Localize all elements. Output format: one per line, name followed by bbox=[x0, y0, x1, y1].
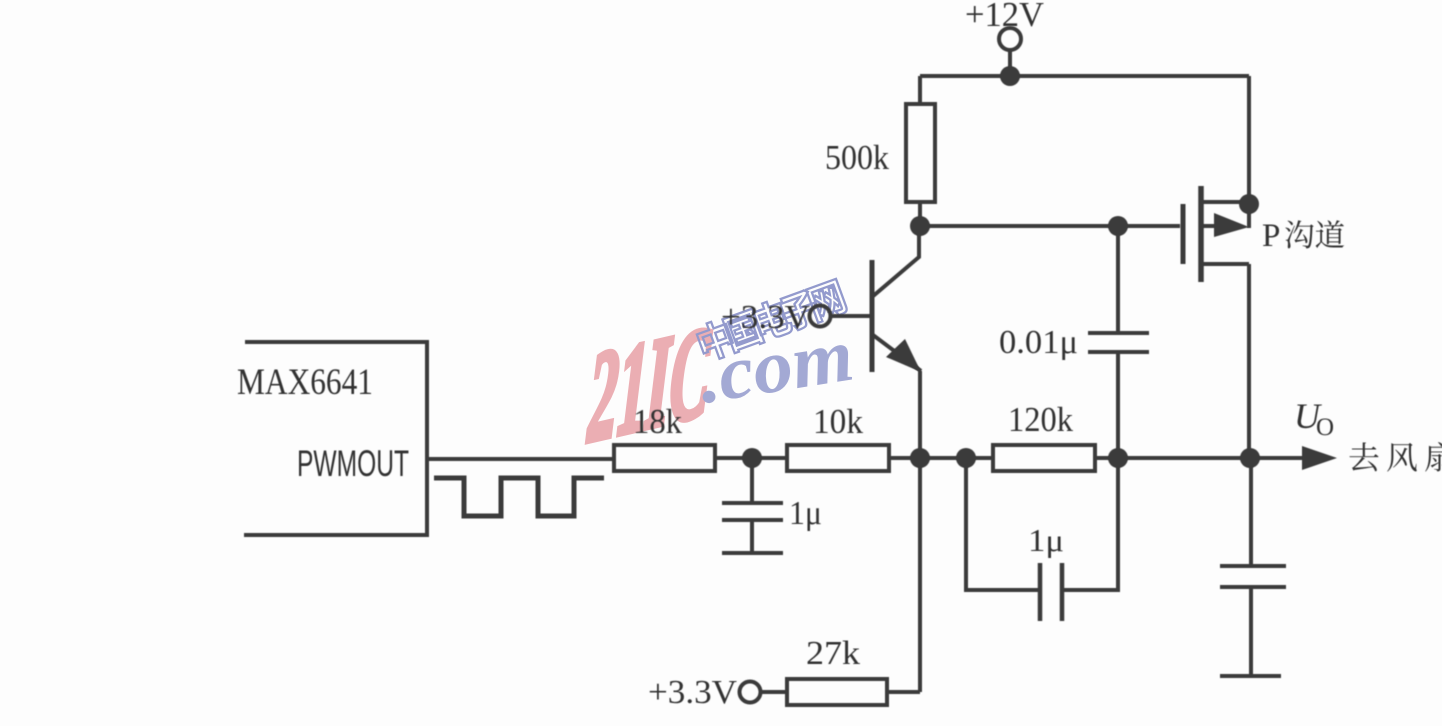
svg-text:120k: 120k bbox=[1008, 400, 1073, 439]
svg-text:18k: 18k bbox=[633, 402, 682, 441]
svg-text:+3.3V: +3.3V bbox=[648, 674, 737, 711]
svg-text:10k: 10k bbox=[813, 402, 863, 441]
svg-text:PWMOUT: PWMOUT bbox=[297, 443, 409, 484]
svg-text:27k: 27k bbox=[806, 635, 860, 672]
svg-text:MAX6641: MAX6641 bbox=[237, 362, 373, 403]
svg-text:0.01μ: 0.01μ bbox=[999, 324, 1078, 361]
svg-text:1μ: 1μ bbox=[789, 495, 822, 532]
svg-text:+3.3V: +3.3V bbox=[721, 299, 810, 336]
svg-text:+12V: +12V bbox=[965, 0, 1044, 34]
svg-text:P: P bbox=[1262, 218, 1280, 254]
svg-text:1μ: 1μ bbox=[1028, 522, 1064, 558]
svg-text:500k: 500k bbox=[825, 138, 889, 177]
svg-text:O: O bbox=[1316, 414, 1334, 441]
